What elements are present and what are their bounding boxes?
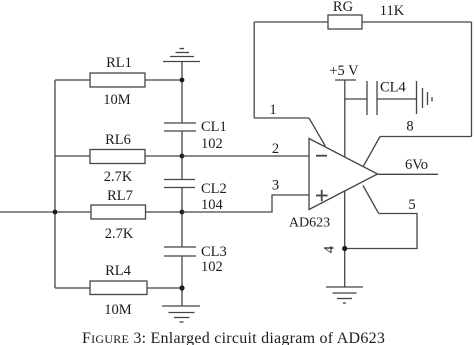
value 11K (RG) [380, 3, 405, 19]
svg-text:RL6: RL6 [105, 132, 131, 148]
value 10M (RL4) [104, 302, 132, 318]
svg-text:2.7K: 2.7K [105, 226, 134, 242]
wire pin 4 [344, 191, 346, 287]
wire input (left, to RL7) [0, 211, 91, 213]
svg-text:2: 2 [272, 141, 279, 157]
svg-text:4: 4 [322, 245, 338, 253]
label RL6 [105, 132, 131, 148]
capacitor CL3 [164, 247, 196, 256]
pin label 3 [272, 178, 279, 194]
pin label 8 [406, 119, 413, 135]
label +5V [329, 63, 359, 79]
label RL1 [106, 55, 132, 71]
power +5V terminal [335, 80, 356, 157]
wire pin 3 (jog) [182, 195, 309, 212]
node pin4-pin5 junction [342, 246, 347, 251]
node RL7-bus [180, 210, 185, 215]
label AD623 [289, 216, 330, 231]
wire right vertical (RG to pin 8) [471, 22, 473, 137]
label CL2 [201, 181, 227, 197]
svg-text:CL4: CL4 [380, 80, 407, 96]
node RL4-bus [179, 285, 184, 290]
svg-text:5: 5 [408, 197, 415, 213]
label 6Vo [405, 157, 428, 173]
op-amp plus symbol [316, 190, 328, 201]
pin label 2 [272, 141, 279, 157]
svg-text:10M: 10M [104, 302, 132, 318]
svg-text:CL1: CL1 [201, 119, 227, 135]
wire pin 1 [254, 22, 325, 146]
svg-text:AD623: AD623 [289, 216, 330, 231]
wire capacitor bus vertical [181, 62, 183, 307]
node RL6-bus [180, 154, 185, 159]
svg-text:RL7: RL7 [107, 188, 133, 204]
value 102 (CL1) [201, 136, 223, 152]
ground top (inverted) [163, 49, 200, 62]
svg-text:CL2: CL2 [201, 181, 227, 197]
label CL1 [201, 119, 227, 135]
resistor RL6 [55, 150, 182, 164]
svg-text:FIGURE 3: Enlarged circuit dia: FIGURE 3: Enlarged circuit diagram of AD… [82, 330, 385, 345]
svg-text:11K: 11K [380, 3, 405, 19]
svg-text:RL4: RL4 [105, 263, 132, 279]
svg-text:2.7K: 2.7K [104, 169, 133, 185]
svg-text:6Vo: 6Vo [405, 157, 428, 173]
pin label 4 (rotated) [322, 245, 338, 253]
svg-text:3: 3 [272, 178, 279, 194]
capacitor CL1 [164, 123, 196, 131]
svg-text:1: 1 [269, 102, 276, 118]
caption Figure 3 [82, 330, 385, 345]
wire pin 2 [182, 155, 309, 157]
label CL3 [201, 244, 227, 260]
ground bottom left [162, 306, 200, 322]
value 10M (RL1) [103, 92, 131, 108]
svg-text:RG: RG [333, 0, 354, 15]
wire pin 8 [364, 137, 472, 167]
svg-text:104: 104 [201, 197, 224, 213]
value 104 (CL2) [201, 197, 224, 213]
node RL1-bus [180, 78, 185, 83]
pin label 5 [408, 197, 415, 213]
wire output 6Vo [378, 173, 439, 175]
wire left vertical bus [54, 80, 56, 288]
ground op-amp (bottom right) [326, 287, 363, 303]
resistor RL4 [55, 281, 182, 295]
wire pin 5 feedback loop [345, 186, 417, 249]
svg-text:8: 8 [406, 119, 413, 135]
resistor RG [254, 15, 471, 29]
ground right (sideways) [417, 81, 433, 114]
resistor RL7 [91, 205, 182, 219]
op-amp U1 AD623 triangle [309, 139, 378, 210]
svg-text:RL1: RL1 [106, 55, 132, 71]
svg-text:102: 102 [201, 136, 223, 152]
label RL4 [105, 263, 132, 279]
resistor RL1 [55, 73, 182, 87]
value 2.7K (RL6) [104, 169, 133, 185]
svg-text:10M: 10M [103, 92, 131, 108]
label RL7 [107, 188, 133, 204]
value 2.7K (RL7) [105, 226, 134, 242]
svg-text:CL3: CL3 [201, 244, 227, 260]
capacitor CL4 [345, 81, 417, 115]
label CL4 [380, 80, 407, 96]
pin label 1 [269, 102, 276, 118]
value 102 (CL3) [201, 259, 223, 275]
capacitor CL2 [164, 180, 195, 188]
label RG [333, 0, 354, 15]
op-amp minus symbol [316, 155, 327, 157]
svg-text:+5 V: +5 V [329, 63, 359, 79]
svg-text:102: 102 [201, 259, 223, 275]
node input junction [53, 210, 58, 215]
